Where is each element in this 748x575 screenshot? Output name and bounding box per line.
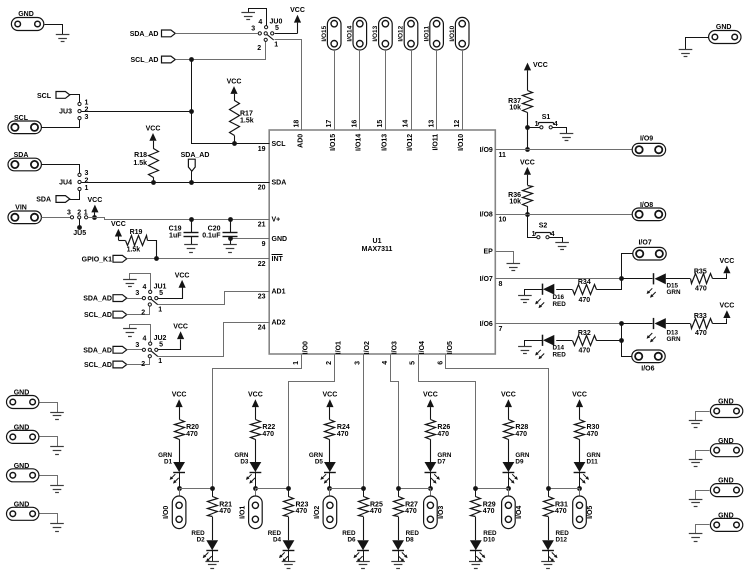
ground [123, 325, 150, 343]
svg-text:SDA_AD: SDA_AD [83, 347, 112, 354]
svg-text:VIN: VIN [15, 205, 27, 212]
power VCC [720, 258, 735, 273]
net label SDA_AD [130, 30, 176, 38]
net label SCL_AD [84, 361, 127, 369]
junction [210, 486, 215, 491]
svg-text:9: 9 [262, 241, 266, 248]
pin 20 SDA [258, 180, 287, 192]
svg-text:GND: GND [14, 390, 30, 397]
junction [253, 486, 258, 491]
svg-text:1: 1 [85, 185, 89, 192]
svg-text:12: 12 [454, 120, 461, 128]
wire AD1 net [158, 292, 270, 305]
power VCC [520, 159, 535, 185]
svg-text:2: 2 [141, 310, 145, 317]
ground [123, 274, 150, 291]
power VCC [158, 272, 190, 298]
svg-text:3: 3 [135, 290, 139, 297]
svg-text:I/O10: I/O10 [458, 134, 465, 151]
junction [228, 217, 233, 222]
wire [359, 50, 361, 130]
resistor R21 [208, 488, 233, 540]
svg-text:2: 2 [85, 107, 89, 114]
resistor R30 [575, 420, 600, 463]
svg-text:I/O13: I/O13 [381, 134, 388, 151]
connector I/O4 [502, 488, 523, 529]
svg-text:I/O3: I/O3 [438, 506, 445, 519]
wire [696, 412, 710, 421]
svg-text:470: 470 [587, 431, 599, 438]
wire [70, 191, 80, 200]
jumper JU5 [67, 209, 88, 237]
svg-text:3: 3 [85, 170, 89, 177]
junction [154, 256, 159, 261]
svg-text:U1: U1 [373, 238, 382, 245]
svg-text:D10: D10 [483, 537, 495, 544]
junction [396, 486, 401, 491]
pin 22 INT [258, 255, 284, 269]
connector GND top-left [11, 11, 43, 31]
svg-text:SDA: SDA [272, 180, 287, 187]
power VCC [720, 303, 735, 318]
svg-text:470: 470 [405, 508, 417, 515]
svg-text:R35: R35 [694, 268, 707, 275]
led D4 RED [268, 530, 295, 562]
resistor R25 [359, 488, 383, 540]
led D15 GRN [647, 273, 681, 298]
wire [696, 451, 710, 460]
connector I/O10 [449, 17, 469, 50]
svg-text:23: 23 [258, 294, 266, 301]
svg-text:R34: R34 [578, 279, 591, 286]
power VCC [572, 392, 587, 420]
svg-text:VCC: VCC [720, 258, 735, 265]
svg-text:GRN: GRN [667, 289, 681, 296]
svg-text:2: 2 [85, 178, 89, 185]
svg-text:I/O1: I/O1 [239, 506, 246, 519]
ground [507, 264, 521, 271]
pin 5 I/O4 [410, 341, 427, 365]
connector I/O3 [424, 488, 445, 529]
svg-text:GND: GND [718, 438, 734, 445]
svg-text:GND: GND [272, 236, 288, 243]
svg-text:I/O11: I/O11 [423, 26, 430, 42]
ground [560, 134, 574, 141]
connector GND [7, 390, 39, 409]
pin 24 AD2 [258, 320, 286, 332]
svg-text:I/O7: I/O7 [480, 276, 493, 283]
wire [127, 349, 143, 351]
wire [330, 488, 363, 490]
svg-text:D5: D5 [315, 459, 324, 466]
svg-text:1: 1 [84, 209, 88, 216]
wire [385, 50, 387, 130]
svg-text:5: 5 [159, 290, 163, 297]
connector I/O11 [423, 17, 443, 50]
pin 23 AD1 [258, 289, 286, 301]
ground [555, 243, 569, 250]
jumper JU3 [59, 99, 88, 121]
led D10 RED [470, 530, 497, 562]
svg-text:10k: 10k [509, 104, 521, 111]
svg-text:7: 7 [499, 326, 503, 333]
svg-text:VCC: VCC [175, 272, 190, 279]
svg-text:D8: D8 [406, 537, 415, 544]
svg-text:R33: R33 [694, 313, 707, 320]
svg-text:1.5k: 1.5k [240, 117, 254, 124]
svg-text:D14: D14 [553, 344, 565, 351]
svg-text:I/O0: I/O0 [303, 341, 310, 354]
junction [525, 212, 530, 217]
svg-text:VCC: VCC [290, 7, 305, 14]
ground [50, 486, 64, 493]
wire [127, 358, 150, 365]
svg-text:4: 4 [382, 361, 389, 365]
svg-text:D12: D12 [556, 537, 568, 544]
connector GND [710, 513, 742, 532]
connector GND [710, 399, 742, 418]
power VCC [146, 125, 161, 148]
svg-text:VCC: VCC [520, 159, 535, 166]
svg-text:470: 470 [695, 285, 707, 292]
svg-text:3: 3 [135, 342, 139, 349]
svg-text:SCL_AD: SCL_AD [84, 312, 112, 319]
resistor R36 [508, 186, 532, 215]
ground [282, 562, 296, 569]
connector I/O13 [372, 17, 392, 50]
svg-text:I/O2: I/O2 [314, 506, 321, 519]
power VCC [248, 392, 263, 420]
svg-text:18: 18 [294, 120, 301, 128]
pin 12 I/O10 [454, 120, 465, 151]
wire V+ net [88, 218, 270, 220]
resistor R35 [691, 268, 713, 292]
svg-text:24: 24 [258, 325, 266, 332]
svg-text:2: 2 [77, 209, 81, 216]
svg-text:JU4: JU4 [59, 180, 72, 187]
wire [255, 488, 288, 490]
svg-text:GND: GND [716, 24, 732, 31]
junction [286, 486, 291, 491]
svg-text:SCL: SCL [14, 115, 29, 122]
wire [548, 488, 580, 490]
svg-text:470: 470 [262, 431, 274, 438]
junction [619, 276, 624, 281]
svg-text:13: 13 [428, 120, 435, 128]
wire [696, 491, 710, 500]
pin 7 I/O6 [480, 321, 503, 333]
resistor R33 [691, 313, 713, 337]
svg-text:VCC: VCC [501, 392, 516, 399]
connector I/O1 [239, 488, 262, 529]
svg-text:11: 11 [499, 152, 507, 159]
svg-text:I/O5: I/O5 [447, 341, 454, 354]
pin 9 GND [262, 236, 287, 248]
wire [127, 307, 150, 315]
wire [556, 340, 572, 342]
wire [40, 403, 58, 413]
svg-text:I/O6: I/O6 [480, 321, 493, 328]
svg-text:VCC: VCC [720, 303, 735, 310]
junction [232, 141, 237, 146]
svg-text:470: 470 [483, 508, 495, 515]
junction SCL_AD node [189, 57, 194, 62]
wire [411, 50, 413, 130]
jumper JU2 [135, 335, 166, 368]
svg-text:JU3: JU3 [59, 109, 72, 116]
resistor R19 [118, 229, 156, 258]
svg-text:I/O14: I/O14 [347, 25, 354, 41]
wire I/O8 net [495, 214, 632, 216]
junction [619, 338, 624, 343]
svg-text:1.5k: 1.5k [127, 247, 141, 254]
pin 8 I/O7 [480, 276, 503, 288]
svg-text:SDA_AD: SDA_AD [130, 31, 159, 38]
power VCC [501, 392, 516, 420]
svg-text:19: 19 [258, 146, 266, 153]
svg-text:470: 470 [219, 508, 231, 515]
svg-text:3: 3 [67, 209, 71, 216]
svg-text:I/O4: I/O4 [419, 341, 426, 354]
svg-text:D6: D6 [347, 537, 356, 544]
ground [689, 421, 703, 428]
svg-text:1: 1 [293, 361, 300, 365]
svg-text:RED: RED [553, 351, 567, 358]
jumper JU1 [135, 283, 166, 316]
net label SCL_AD [84, 311, 127, 319]
connector GND top-right [709, 24, 741, 44]
svg-text:S2: S2 [539, 222, 548, 229]
svg-text:I/O7: I/O7 [638, 239, 651, 246]
svg-text:2: 2 [257, 45, 261, 52]
svg-text:AD2: AD2 [272, 320, 286, 327]
connector I/O7 [633, 239, 666, 260]
svg-text:I/O6: I/O6 [641, 366, 654, 373]
pin EP EP [483, 249, 493, 256]
junction [525, 147, 530, 152]
connector I/O12 [398, 17, 418, 50]
ground [241, 9, 266, 26]
wire INT net [127, 258, 269, 260]
resistor R34 [573, 279, 597, 304]
pin 10 I/O8 [480, 212, 507, 224]
wire [40, 514, 58, 524]
svg-text:470: 470 [186, 431, 198, 438]
wire [41, 217, 70, 219]
led D5 GRN [309, 452, 336, 488]
wire [398, 488, 430, 490]
connector GND [7, 463, 39, 482]
resistor R31 [544, 488, 568, 540]
svg-text:MAX7311: MAX7311 [362, 246, 393, 253]
pin 18 AD0 [294, 120, 305, 148]
pin 2 I/O1 [326, 341, 343, 365]
svg-text:D16: D16 [553, 294, 565, 301]
junction [506, 486, 511, 491]
wire [476, 488, 509, 490]
net label SCL_AD [130, 56, 175, 64]
svg-text:5: 5 [410, 361, 417, 365]
resistor R28 [504, 420, 529, 463]
led D1 GRN [158, 452, 185, 488]
svg-text:1: 1 [158, 306, 162, 313]
resistor R29 [471, 488, 496, 540]
svg-text:GND: GND [14, 463, 30, 470]
wire to I/O7 connector [622, 254, 634, 279]
svg-text:2: 2 [141, 361, 145, 368]
wire [556, 289, 572, 291]
resistor R26 [426, 420, 451, 463]
wire SCL net [82, 60, 270, 144]
svg-text:470: 470 [555, 508, 567, 515]
switch S1 [535, 114, 558, 129]
resistor R37 [508, 91, 532, 128]
wire pin 3 to cell [363, 354, 365, 488]
junction [189, 109, 194, 114]
wire [525, 290, 543, 296]
wire pin 5 to cell [419, 355, 476, 489]
wire [127, 298, 143, 300]
svg-text:INT: INT [272, 256, 284, 263]
junction [151, 180, 156, 185]
junction [189, 180, 194, 185]
led D13 GRN [647, 318, 681, 343]
svg-text:I/O5: I/O5 [587, 506, 594, 519]
wire [462, 50, 464, 130]
svg-text:GND: GND [718, 399, 734, 406]
net label SDA_AD [181, 152, 210, 182]
svg-text:SDA_AD: SDA_AD [181, 152, 210, 159]
svg-text:D2: D2 [197, 537, 206, 544]
svg-text:14: 14 [403, 120, 410, 128]
resistor R20 [175, 420, 200, 463]
svg-text:I/O12: I/O12 [398, 25, 405, 41]
svg-text:I/O8: I/O8 [640, 202, 653, 209]
jumper JU4 [59, 170, 88, 192]
svg-text:V+: V+ [272, 217, 281, 224]
svg-text:1: 1 [535, 121, 539, 128]
svg-text:5: 5 [159, 342, 163, 349]
svg-text:SDA_AD: SDA_AD [83, 296, 112, 303]
net label SDA [36, 196, 70, 204]
svg-text:VCC: VCC [323, 392, 338, 399]
resistor R17 [230, 101, 254, 144]
svg-text:470: 470 [695, 330, 707, 337]
svg-text:VCC: VCC [248, 392, 263, 399]
svg-text:3: 3 [251, 25, 255, 32]
wire [70, 95, 80, 103]
connector GND [7, 425, 39, 444]
svg-text:VCC: VCC [227, 79, 242, 86]
svg-text:JU5: JU5 [73, 230, 86, 237]
wire GND pin 9 [230, 238, 269, 240]
wire [436, 50, 438, 130]
svg-text:VCC: VCC [146, 125, 161, 132]
led D6 RED [342, 530, 369, 562]
net label SCL [37, 92, 70, 100]
wire [553, 128, 567, 134]
svg-text:VCC: VCC [423, 392, 438, 399]
svg-text:AD0: AD0 [298, 134, 305, 148]
ground [689, 534, 703, 542]
svg-text:4: 4 [554, 121, 558, 128]
svg-text:1: 1 [158, 358, 162, 365]
svg-text:I/O2: I/O2 [364, 341, 371, 354]
led D11 GRN [574, 452, 601, 488]
wire SCL_AD to JU0 pin 2 [176, 42, 266, 60]
connector I/O15 [321, 17, 341, 50]
wire D16 branch [597, 279, 622, 290]
power VCC [111, 221, 126, 240]
svg-text:S1: S1 [542, 114, 551, 121]
svg-text:1.5k: 1.5k [133, 160, 147, 167]
svg-text:D7: D7 [437, 459, 446, 466]
wire [696, 525, 710, 534]
pin 14 I/O12 [403, 120, 414, 151]
svg-text:D4: D4 [273, 537, 282, 544]
junction [428, 486, 433, 491]
ground [223, 245, 237, 253]
svg-text:470: 470 [578, 348, 590, 355]
resistor R24 [325, 420, 350, 463]
ground [50, 447, 64, 455]
svg-text:R19: R19 [130, 229, 143, 236]
wire I/O9 net [495, 149, 632, 151]
ground [689, 460, 703, 467]
ground [391, 562, 405, 569]
junction [577, 486, 582, 491]
svg-text:470: 470 [578, 297, 590, 304]
led D12 RED [542, 530, 569, 562]
wire [42, 120, 80, 128]
wire R37 to I/O9 [527, 127, 529, 149]
junction [327, 486, 332, 491]
wire [525, 341, 543, 347]
svg-text:R18: R18 [134, 152, 147, 159]
connector GND [710, 478, 742, 497]
IC U1 MAX7311 [269, 130, 495, 354]
wire [713, 319, 727, 324]
connector I/O0 [163, 488, 186, 529]
ground [205, 562, 219, 569]
svg-text:1: 1 [532, 231, 536, 238]
power VCC [423, 392, 438, 420]
ground [50, 524, 64, 532]
ground [184, 245, 198, 253]
svg-text:470: 470 [296, 508, 308, 515]
svg-text:I/O12: I/O12 [407, 134, 414, 151]
junction [189, 217, 194, 222]
svg-text:GND: GND [14, 501, 30, 508]
junction [361, 486, 366, 491]
svg-text:I/O0: I/O0 [163, 506, 170, 519]
wire pin 6 to cell [446, 355, 549, 489]
svg-text:I/O3: I/O3 [391, 341, 398, 354]
svg-text:GND: GND [18, 11, 34, 18]
svg-text:I/O11: I/O11 [433, 134, 440, 151]
pin 19 SCL [258, 141, 287, 153]
junction [619, 321, 624, 326]
power VCC [158, 324, 188, 350]
svg-text:470: 470 [370, 508, 382, 515]
svg-text:15: 15 [377, 120, 384, 128]
svg-text:VCC: VCC [572, 392, 587, 399]
power VCC [88, 197, 103, 220]
svg-text:SCL: SCL [272, 141, 287, 148]
ground [679, 50, 693, 57]
wire [45, 25, 63, 35]
svg-text:8: 8 [499, 281, 503, 288]
